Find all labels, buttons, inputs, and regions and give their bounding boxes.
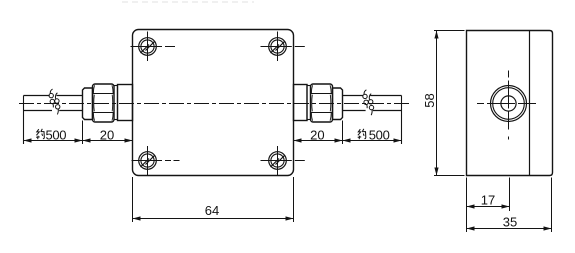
svg-text:500: 500 [369, 127, 390, 142]
left gland hex nut [93, 84, 115, 122]
svg-text:58: 58 [422, 93, 437, 107]
right cable break [363, 90, 374, 115]
side view body [467, 31, 553, 176]
left cable [24, 96, 83, 111]
svg-text:20: 20 [100, 127, 114, 142]
right gland hex nut [311, 84, 333, 122]
side view circle centerlines [477, 71, 541, 142]
left cable gland collar [118, 85, 133, 121]
dim line 17 [467, 206, 510, 208]
left cable end + extension line [23, 96, 25, 145]
right cable [343, 96, 402, 111]
main horizontal centerline [19, 103, 410, 105]
dim line 64 [133, 218, 294, 220]
svg-text:500: 500 [46, 127, 67, 142]
right cap extension line [342, 121, 344, 145]
left gland washer [114, 86, 118, 120]
dim line left 20 [83, 140, 133, 142]
right gland cap [333, 88, 343, 120]
dim line 58 [436, 31, 438, 176]
side view step line [529, 31, 531, 176]
faint cropped line at top [122, 1, 254, 3]
right cable end + extension line [401, 96, 403, 145]
dim line 35 [467, 228, 552, 230]
svg-text:20: 20 [310, 127, 324, 142]
hole top-left [131, 32, 176, 62]
extension lines 64 [132, 177, 134, 222]
dim 35 extension line right [551, 178, 553, 233]
right cable gland collar [294, 85, 308, 121]
svg-text:17: 17 [481, 192, 495, 207]
svg-text:64: 64 [205, 203, 219, 218]
plate front view body [133, 30, 294, 176]
left gland cap [83, 88, 93, 120]
left cable break [49, 89, 60, 114]
dim 17 extension lines [466, 178, 468, 233]
dim text right approx500 [358, 127, 390, 142]
dim text left approx500 [36, 127, 66, 142]
hole top-right [261, 32, 305, 62]
dim 58 extension lines [434, 30, 465, 32]
svg-text:35: 35 [503, 214, 517, 229]
left cap extension line [82, 121, 84, 145]
dim line right 20 [294, 140, 343, 142]
hole bottom-left [132, 146, 180, 175]
right gland washer [307, 86, 311, 120]
dim line right approx500 [343, 140, 402, 142]
side view boss circles [491, 86, 527, 122]
dim line left approx500 [24, 140, 83, 142]
hole bottom-right [261, 146, 305, 175]
